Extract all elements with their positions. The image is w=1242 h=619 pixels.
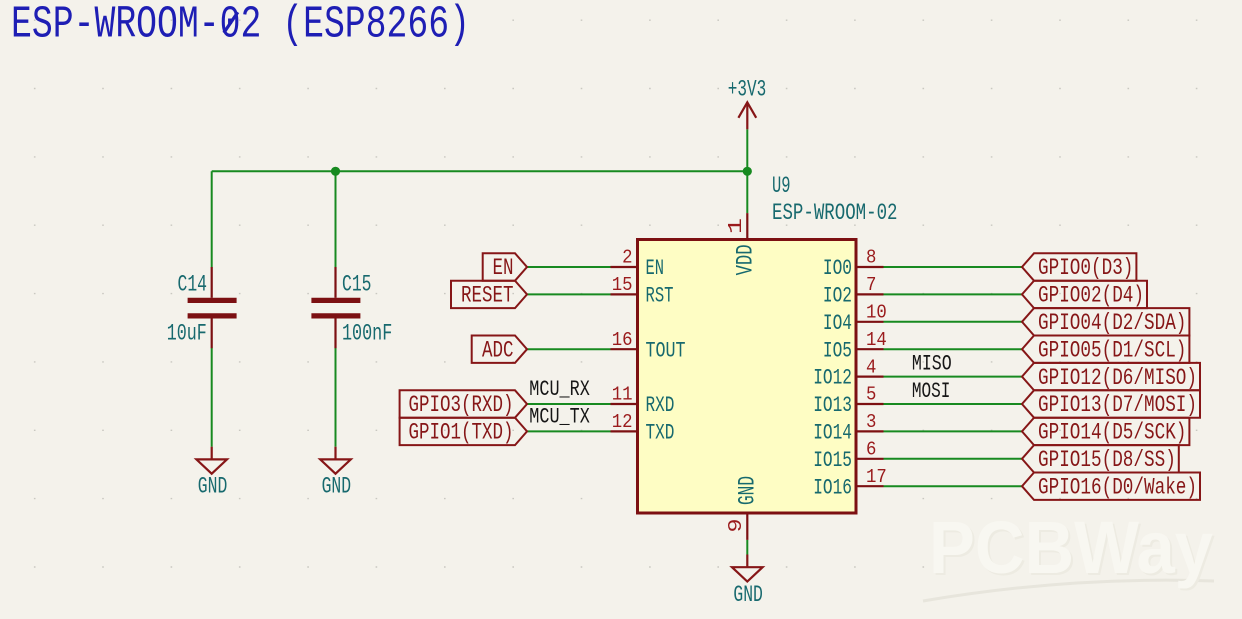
global label EN	[483, 253, 527, 281]
svg-text:GPIO14(D5/SCK): GPIO14(D5/SCK)	[1038, 420, 1186, 446]
pin 6 IO15 (right)	[813, 439, 883, 473]
svg-text:10: 10	[866, 302, 887, 324]
svg-text:GPIO3(RXD): GPIO3(RXD)	[409, 392, 514, 418]
svg-text:EN: EN	[493, 255, 514, 281]
IC U9 ESP-WROOM-02 body	[638, 240, 857, 514]
svg-text:GPIO0(D3): GPIO0(D3)	[1038, 255, 1133, 281]
wire: C14 bottom to GND	[211, 348, 213, 447]
ground symbol below U9	[732, 555, 763, 609]
svg-text:IO12: IO12	[813, 365, 852, 391]
svg-text:IO14: IO14	[813, 420, 852, 446]
svg-text:ESP-WROOM-02: ESP-WROOM-02	[772, 200, 898, 226]
svg-text:4: 4	[866, 356, 876, 378]
svg-text:GPIO1(TXD): GPIO1(TXD)	[409, 420, 514, 446]
junction at +3V3 rail / C15	[331, 167, 340, 176]
wire: IO15 to right label	[884, 458, 1023, 460]
junction at +3V3 rail / VDD	[743, 167, 752, 176]
pin 7 IO2 (right)	[823, 274, 884, 308]
svg-text:1: 1	[725, 218, 747, 234]
global label GPIO0(D3)	[1022, 253, 1136, 281]
svg-text:GPIO04(D2/SDA): GPIO04(D2/SDA)	[1038, 310, 1186, 336]
svg-text:RST: RST	[646, 283, 674, 309]
wire: EN label to pin 2	[527, 266, 611, 268]
svg-text:IO13: IO13	[813, 392, 852, 418]
wire: IO16 to right label	[884, 485, 1023, 487]
svg-text:GPIO15(D8/SS): GPIO15(D8/SS)	[1038, 447, 1176, 473]
wire: IO4 to right label	[884, 321, 1023, 323]
pin 4 IO12 (right)	[813, 356, 883, 390]
wire: C15 bottom to GND	[335, 348, 337, 447]
svg-text:+3V3: +3V3	[728, 77, 767, 103]
svg-text:9: 9	[725, 519, 747, 533]
svg-text:IO15: IO15	[813, 447, 852, 473]
svg-text:16: 16	[612, 329, 633, 351]
global label GPIO02(D4)	[1022, 281, 1147, 309]
svg-text:IO5: IO5	[823, 337, 852, 363]
global label GPIO16(D0/Wake)	[1022, 473, 1200, 501]
svg-text:GPIO05(D1/SCL): GPIO05(D1/SCL)	[1038, 337, 1186, 363]
global label GPIO13(D7/MOSI)	[1022, 390, 1200, 418]
svg-text:3: 3	[866, 411, 876, 433]
pin 16 TOUT (left)	[611, 329, 686, 363]
ground symbol at C14	[196, 447, 227, 500]
svg-text:MOSI: MOSI	[912, 378, 951, 404]
wire: C15 top vertical	[335, 171, 337, 267]
wire: GND pin to ground	[746, 540, 748, 555]
svg-text:5: 5	[866, 384, 876, 406]
wire: MCU_RX to pin 11	[527, 403, 611, 405]
global label GPIO14(D5/SCK)	[1022, 418, 1189, 446]
svg-text:GPIO12(D6/MISO): GPIO12(D6/MISO)	[1038, 365, 1197, 391]
svg-text:14: 14	[866, 329, 887, 351]
svg-text:GND: GND	[198, 474, 228, 500]
svg-text:MCU_RX: MCU_RX	[529, 376, 590, 402]
svg-text:GND: GND	[735, 476, 761, 505]
wire: IO12 to right label	[884, 376, 1023, 378]
svg-text:IO0: IO0	[823, 255, 852, 281]
svg-text:C15: C15	[342, 271, 372, 297]
global label GPIO1(TXD)	[400, 418, 527, 446]
pin 2 EN (left)	[611, 247, 665, 281]
svg-text:10uF: 10uF	[167, 320, 207, 346]
global label ADC	[472, 336, 527, 364]
svg-text:IO4: IO4	[823, 310, 852, 336]
svg-text:TOUT: TOUT	[646, 337, 686, 363]
wire: +3V3 to VDD vertical	[746, 129, 748, 213]
pin 5 IO13 (right)	[813, 384, 883, 418]
svg-text:RESET: RESET	[461, 283, 514, 309]
global label RESET	[451, 281, 527, 309]
svg-text:7: 7	[866, 274, 876, 296]
svg-text:IO16: IO16	[813, 474, 852, 500]
pin 14 IO5 (right)	[823, 329, 887, 363]
wire: IO14 to right label	[884, 430, 1023, 432]
capacitor C15	[311, 267, 392, 348]
global label GPIO15(D8/SS)	[1022, 445, 1179, 473]
pin 3 IO14 (right)	[813, 411, 883, 445]
svg-text:IO2: IO2	[823, 283, 852, 309]
pin 8 IO0 (right)	[823, 247, 884, 281]
svg-text:100nF: 100nF	[342, 320, 392, 346]
svg-text:2: 2	[622, 247, 632, 269]
global label GPIO3(RXD)	[400, 390, 527, 418]
svg-text:RXD: RXD	[646, 392, 675, 418]
wire: RESET label to pin 15	[527, 293, 611, 295]
pin 1 VDD (top)	[725, 213, 759, 275]
wire: MCU_TX to pin 12	[527, 430, 611, 432]
global label GPIO12(D6/MISO)	[1022, 363, 1200, 391]
wire: IO5 to right label	[884, 348, 1023, 350]
svg-text:GPIO02(D4): GPIO02(D4)	[1038, 283, 1144, 309]
capacitor C14	[167, 267, 237, 348]
ground symbol at C15	[320, 447, 351, 500]
wire: C14 top vertical	[211, 171, 213, 267]
svg-text:MISO: MISO	[912, 351, 952, 377]
svg-text:MCU_TX: MCU_TX	[529, 403, 590, 429]
wire: main horizontal +3V3 rail	[212, 170, 748, 172]
svg-text:GPIO13(D7/MOSI): GPIO13(D7/MOSI)	[1038, 392, 1197, 418]
svg-text:15: 15	[612, 274, 633, 296]
svg-text:PCBWay: PCBWay	[929, 506, 1213, 589]
pin 10 IO4 (right)	[823, 302, 887, 336]
svg-text:ESP-WROOM-02 (ESP8266): ESP-WROOM-02 (ESP8266)	[11, 0, 470, 50]
svg-text:12: 12	[612, 411, 633, 433]
pin 11 RXD (left)	[611, 384, 675, 418]
svg-text:TXD: TXD	[646, 420, 675, 446]
svg-text:VDD: VDD	[733, 244, 759, 275]
svg-text:ADC: ADC	[482, 337, 514, 363]
pin 17 IO16 (right)	[813, 466, 887, 500]
svg-text:8: 8	[866, 247, 876, 269]
global label GPIO05(D1/SCL)	[1022, 336, 1189, 364]
power symbol +3V3	[728, 77, 767, 130]
wire: IO13 to right label	[884, 403, 1023, 405]
svg-text:GPIO16(D0/Wake): GPIO16(D0/Wake)	[1038, 474, 1197, 500]
wire: IO0 to right label	[884, 266, 1023, 268]
watermark PCBWay	[923, 506, 1215, 601]
svg-text:U9: U9	[772, 173, 791, 199]
pin 9 GND (bottom)	[725, 476, 761, 540]
svg-text:6: 6	[866, 439, 876, 461]
svg-text:EN: EN	[646, 255, 665, 281]
pin 15 RST (left)	[611, 274, 674, 308]
svg-text:GND: GND	[322, 474, 352, 500]
wire: IO2 to right label	[884, 293, 1023, 295]
wire: ADC label to pin 16	[527, 348, 611, 350]
svg-text:C14: C14	[178, 271, 208, 297]
pin 12 TXD (left)	[611, 411, 675, 445]
global label GPIO04(D2/SDA)	[1022, 308, 1189, 336]
svg-text:17: 17	[866, 466, 887, 488]
svg-text:GND: GND	[733, 582, 763, 608]
svg-text:11: 11	[612, 384, 633, 406]
